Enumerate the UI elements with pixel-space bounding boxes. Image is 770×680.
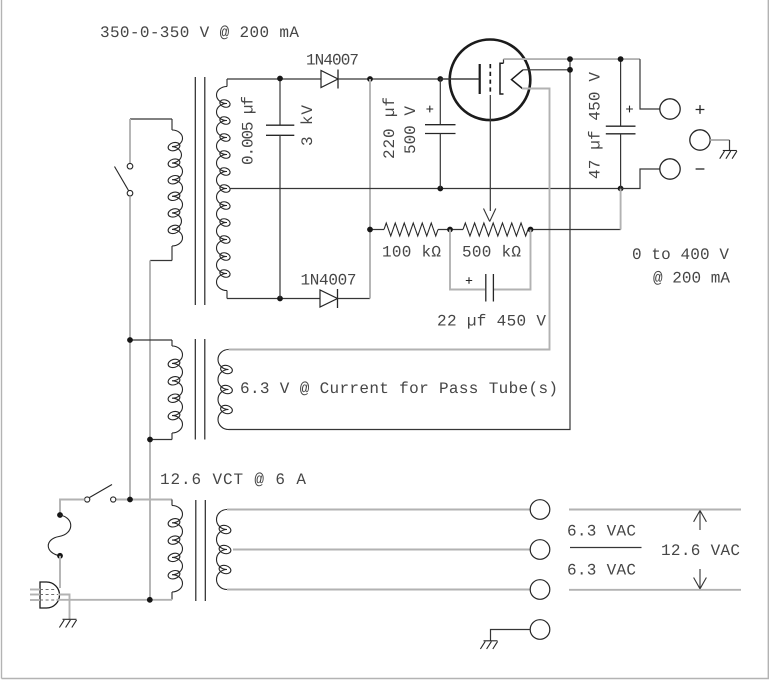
resistor R1 100k bbox=[384, 223, 438, 236]
transformer T1 primary winding bbox=[171, 119, 173, 130]
node R1 left bbox=[367, 227, 373, 233]
svg-text:3 kV: 3 kV bbox=[299, 105, 317, 146]
svg-text:100 kΩ: 100 kΩ bbox=[382, 243, 441, 261]
svg-text:500 kΩ: 500 kΩ bbox=[462, 243, 521, 261]
potentiometer R2 500k bbox=[463, 223, 528, 236]
tube cathode sleeve bbox=[500, 63, 504, 94]
terminal - output bbox=[660, 159, 680, 179]
wire plug ground pin bbox=[59, 595, 70, 620]
svg-text:220 µf: 220 µf bbox=[381, 97, 399, 159]
dimension arrow down bbox=[694, 569, 707, 589]
node C1 top bbox=[277, 76, 283, 82]
node C4 top bbox=[618, 56, 624, 62]
wire D2 cathode to raw+ bus bbox=[338, 298, 371, 300]
svg-text:6.3 V @ Current for Pass Tube(: 6.3 V @ Current for Pass Tube(s) bbox=[240, 380, 558, 398]
svg-text:@ 200 mA: @ 200 mA bbox=[653, 270, 730, 288]
terminal 6.3VAC bottom bbox=[530, 580, 550, 600]
label C2 polarity + bbox=[426, 106, 433, 113]
node mains hot junction bbox=[127, 497, 133, 503]
transformer T3 secondary 12.6VCT winding bbox=[217, 510, 228, 590]
switch SW2 (mains) bbox=[85, 497, 90, 502]
node neutral junction bbox=[147, 597, 153, 603]
border right bbox=[767, 0, 769, 679]
pot wiper arrow bbox=[484, 209, 496, 222]
tube grid (dashed) bbox=[489, 64, 491, 95]
svg-text:22 µf 450 V: 22 µf 450 V bbox=[437, 312, 546, 330]
terminal + output bbox=[660, 99, 680, 119]
wire bottom rail 350V bbox=[227, 298, 320, 300]
node cord bottom bbox=[57, 553, 63, 559]
node T2 primary top tap bbox=[127, 337, 133, 343]
plug prongs bbox=[30, 589, 40, 591]
pass tube V1 envelope bbox=[450, 40, 531, 121]
wire C3 left lead bbox=[450, 230, 485, 290]
wire grid lead bbox=[489, 95, 491, 211]
node 220uf top bbox=[437, 76, 443, 82]
wire gnd terminal bbox=[710, 139, 729, 141]
svg-text:47 µf 450 V: 47 µf 450 V bbox=[587, 72, 605, 179]
node pot right / C3 bbox=[528, 227, 534, 233]
terminal center tap bbox=[530, 540, 550, 560]
wire cord to plug bbox=[59, 556, 61, 588]
transformer T2 core bbox=[194, 339, 196, 440]
wire SW2 left to cord bbox=[60, 500, 85, 516]
svg-text:0 to 400 V: 0 to 400 V bbox=[632, 246, 729, 264]
wire D1 cathode rail bbox=[338, 78, 480, 80]
wire 47uf bottom to pot top bbox=[620, 189, 622, 230]
ground (mains) bbox=[63, 618, 77, 620]
tube plate lead bbox=[440, 78, 479, 80]
wire T1 primary bottom bbox=[150, 260, 172, 262]
wire switch to T3 primary bbox=[116, 499, 172, 501]
wire 6.3VAC top lead bbox=[227, 509, 530, 511]
transformer T3 primary winding bbox=[171, 500, 173, 506]
node 47uf bottom bbox=[618, 186, 624, 192]
svg-text:500 V: 500 V bbox=[402, 106, 420, 154]
label - output bbox=[696, 168, 705, 170]
node 220uf bottom bbox=[437, 186, 443, 192]
ground (secondary) bbox=[484, 640, 498, 642]
wire filament top strap bbox=[523, 69, 570, 71]
terminal chassis gnd bbox=[690, 130, 710, 150]
tube plate bbox=[479, 64, 481, 94]
fraction bar bbox=[570, 547, 642, 549]
node cord top bbox=[57, 512, 63, 518]
wire T2 primary bottom bbox=[150, 439, 172, 441]
annotation line bottom bbox=[569, 589, 741, 591]
svg-text:1N4007: 1N4007 bbox=[306, 52, 359, 70]
capacitor C1 0.005uf 3kV bbox=[279, 79, 281, 126]
wire hot bus tap to T2 primary bbox=[130, 339, 172, 341]
svg-text:0.005 µf: 0.005 µf bbox=[240, 96, 258, 165]
ground (output) bbox=[723, 150, 737, 152]
transformer T2 primary winding bbox=[171, 340, 173, 346]
svg-text:1N4007: 1N4007 bbox=[301, 271, 357, 289]
wire R1 to pot bbox=[438, 229, 463, 231]
node filament/strap bbox=[567, 67, 573, 73]
transformer T3 core bbox=[195, 500, 197, 601]
node raw+ top bbox=[367, 76, 373, 82]
wire C3 right lead bbox=[494, 230, 531, 290]
wire neutral rail bbox=[57, 599, 173, 601]
terminal secondary gnd bbox=[530, 620, 550, 640]
wire T1 primary top to switch bbox=[130, 118, 172, 120]
label C3 polarity + bbox=[466, 277, 472, 283]
wire top rail 350V bbox=[227, 78, 321, 80]
wire pot right bbox=[528, 229, 621, 231]
node cathode/strap bbox=[567, 56, 573, 62]
diode D2 1N4007 bbox=[320, 290, 338, 307]
transformer T1 core bbox=[194, 77, 196, 305]
wire 6.3VAC bottom lead bbox=[227, 589, 530, 591]
label + output bbox=[696, 105, 705, 114]
label C4 polarity + bbox=[626, 106, 633, 113]
wire center tap lead bbox=[233, 549, 530, 551]
capacitor C2 220uf 500V bbox=[439, 79, 441, 125]
node R1/pot junction bbox=[447, 227, 453, 233]
wire filament bottom to heater winding bbox=[229, 89, 550, 350]
svg-text:6.3 VAC: 6.3 VAC bbox=[567, 523, 636, 541]
border left bbox=[1, 0, 3, 679]
transformer T1 secondary winding 350-0-350 bbox=[226, 79, 228, 87]
wire secondary gnd bbox=[491, 630, 531, 641]
wire raw+ vertical bus bbox=[369, 79, 371, 299]
transformer T2 secondary 6.3V winding bbox=[218, 350, 228, 430]
wire + output bbox=[640, 59, 660, 109]
node D2/secondary bottom cap bbox=[277, 296, 283, 302]
border bottom bbox=[2, 678, 770, 680]
wire - output bbox=[621, 169, 660, 189]
svg-text:12.6 VAC: 12.6 VAC bbox=[661, 542, 740, 560]
node T2 primary bottom bbox=[147, 437, 153, 443]
wire raw+ to R1 bbox=[370, 229, 384, 231]
capacitor C3 22uf 450V bbox=[485, 274, 487, 302]
wire cathode rail bbox=[504, 58, 641, 60]
wire SW1 to vertical bus bbox=[129, 196, 131, 499]
annotation line top bbox=[569, 509, 741, 511]
wire 0V rail center tap bbox=[231, 188, 621, 190]
svg-text:12.6 VCT @ 6 A: 12.6 VCT @ 6 A bbox=[160, 471, 306, 489]
svg-text:350-0-350 V @ 200 mA: 350-0-350 V @ 200 mA bbox=[100, 24, 299, 42]
dimension arrow up bbox=[694, 511, 707, 531]
AC plug P1 bbox=[40, 582, 60, 608]
switch SW1 (HV standby) bbox=[127, 163, 133, 169]
terminal 6.3VAC top bbox=[530, 500, 550, 520]
capacitor C4 47uf 450V bbox=[620, 59, 622, 126]
wire filament-cathode strap vertical bbox=[229, 59, 571, 429]
diode D1 1N4007 bbox=[321, 71, 338, 88]
svg-text:6.3 VAC: 6.3 VAC bbox=[567, 562, 636, 580]
tube filament bbox=[512, 70, 524, 89]
cord squiggle bbox=[48, 515, 71, 556]
wire neutral bus x=150 bbox=[149, 261, 151, 600]
